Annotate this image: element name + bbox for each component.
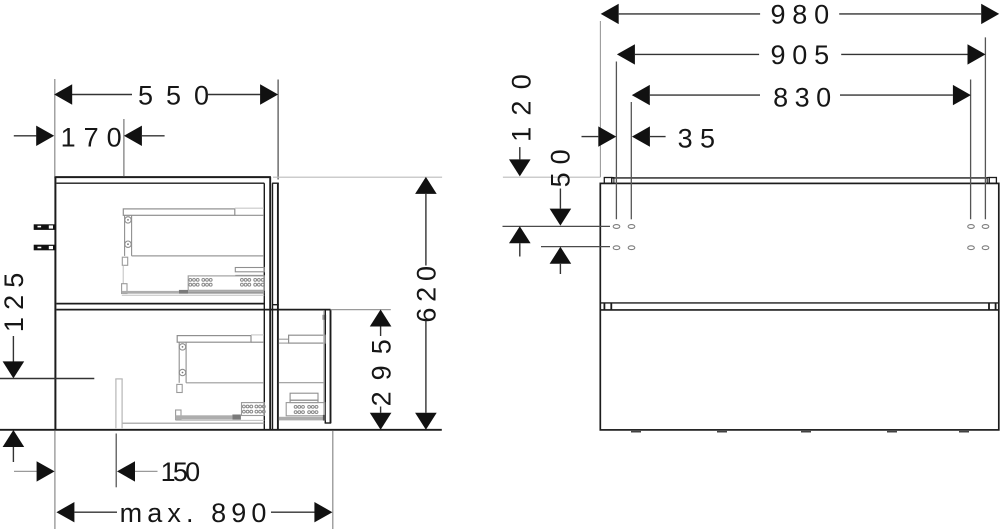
lower slide screw holes rows — [243, 405, 266, 413]
dim 125 line upper — [12, 336, 14, 362]
reference line 295 top — [331, 309, 391, 311]
extension line 550 right — [277, 80, 279, 180]
drawer seam lower line — [600, 309, 999, 311]
lower drawer screw 1 — [179, 344, 185, 350]
svg-text:150: 150 — [161, 457, 199, 487]
dim 35 left arrow with tail — [582, 136, 599, 138]
dim 620 line upper — [425, 194, 427, 266]
lower box top line — [56, 309, 330, 311]
lower drawer slide rail bar light — [176, 415, 233, 419]
dim max890 right arrow — [271, 511, 315, 513]
extension line max890 right — [332, 431, 334, 529]
dim 550 right arrow — [260, 84, 278, 104]
svg-text:550: 550 — [138, 80, 222, 110]
dim 620 top arrow — [415, 177, 437, 194]
seam tick right 1 — [988, 303, 990, 310]
upper drawer slide rail bar dark segment — [179, 290, 188, 294]
dim 170 left arrow with tail — [14, 135, 37, 137]
dim 980 right arrow — [839, 13, 981, 15]
seam tick left 2 — [610, 303, 612, 310]
reference line hole row 2 — [541, 246, 610, 248]
dim 295 bottom arrow — [370, 413, 392, 430]
upper door front panel left line — [272, 183, 274, 430]
dim 620 line lower — [425, 321, 427, 413]
front compartment rail bar — [289, 335, 326, 343]
upper drawer rail bar — [123, 209, 235, 215]
lower drawer slide rail bar dark segment — [232, 415, 241, 420]
top rail left notch — [604, 178, 611, 184]
front compartment bottom panel line — [279, 382, 324, 384]
dim 905 right arrow — [841, 53, 967, 55]
svg-text:50: 50 — [545, 141, 575, 187]
lower drawer front panel bottom cap — [325, 422, 332, 424]
extension line 150 — [115, 434, 117, 488]
mounting hole right A row 2 — [968, 246, 975, 250]
lower drawer screw 2 — [179, 369, 185, 375]
dim 120 down arrow — [509, 159, 531, 176]
cabinet left wall — [54, 177, 56, 430]
dim 125 up arrow — [3, 430, 25, 447]
upper drawer slide rail bar light — [122, 291, 179, 294]
dim 120 up arrow — [509, 226, 531, 243]
svg-text:125: 125 — [0, 265, 29, 332]
extension line cabinet left top — [54, 79, 56, 177]
dim 125 line lower tail — [12, 447, 14, 462]
svg-text:905: 905 — [770, 40, 835, 70]
siphon cutout bar top cap — [115, 378, 122, 380]
foot nub 3 — [801, 431, 811, 433]
lower drawer front bracket tick — [323, 315, 326, 320]
dim 295 top arrow — [370, 310, 392, 327]
front compartment screw holes — [294, 406, 318, 414]
dim 620 bottom arrow — [415, 413, 437, 430]
mounting hole right A row 1 — [968, 225, 975, 229]
reference line top edge left — [503, 176, 600, 178]
svg-text:120: 120 — [507, 63, 537, 142]
RIGHT VIEW DIMENSIONS GROUP — [503, 0, 1000, 274]
front compartment bottom bar dark nub — [323, 415, 326, 421]
wall mounting bracket lower — [34, 245, 56, 251]
drawer seam upper line — [600, 302, 999, 304]
extension line 905 left — [615, 62, 617, 220]
mounting hole left B row 1 — [628, 225, 635, 229]
dim 150 left arrow with gray tail — [14, 470, 37, 472]
siphon cutout bar right line — [121, 379, 123, 428]
front compartment bracket rect 1 — [290, 393, 318, 400]
mounting hole left A row 2 — [613, 246, 620, 250]
dim 120 line — [519, 147, 521, 159]
siphon cutout bar left line — [115, 379, 117, 428]
lower drawer base thin line — [176, 419, 265, 421]
lower drawer rail bar — [177, 336, 251, 343]
dim 980 left arrow — [601, 4, 619, 24]
seam tick left 1 — [603, 303, 605, 310]
foot nub 2 — [717, 431, 727, 433]
dim 550 line segments — [72, 94, 132, 96]
LEFT SIDE VIEW GROUP — [0, 177, 442, 430]
upper drawer screw 1 — [125, 217, 131, 223]
top rail top line — [612, 177, 988, 179]
reference line hole row 1 — [503, 225, 611, 227]
lower drawer bottom panel line — [186, 382, 264, 384]
extension line 830 left — [630, 102, 632, 219]
lower drawer front panel inner line — [324, 310, 326, 423]
wall mounting bracket upper — [34, 224, 56, 230]
dim 830 right arrow — [840, 94, 953, 96]
extension line 830 right — [970, 80, 972, 220]
mounting hole right B row 1 — [982, 225, 989, 229]
mounting hole right B row 2 — [982, 246, 989, 250]
upper drawer bottom panel line — [132, 255, 264, 257]
front compartment inner face line — [323, 311, 325, 421]
upper box bottom line — [56, 303, 264, 305]
upper drawer slide rail bar mid — [188, 291, 264, 294]
seam tick right 2 — [995, 303, 997, 310]
extension line 905 right — [984, 37, 986, 219]
upper drawer back rail bracket — [235, 268, 264, 272]
front view body outline — [600, 183, 999, 430]
cabinet bottom line full — [0, 429, 442, 431]
dim 125 reference line — [0, 378, 94, 380]
door panel bottom cap — [272, 304, 279, 306]
foot nub 5 — [959, 431, 969, 433]
svg-text:295: 295 — [366, 328, 396, 406]
dim 50 down arrow — [550, 209, 572, 226]
dim 50 line — [559, 189, 561, 209]
extension line left bottom — [54, 431, 56, 529]
svg-text:830: 830 — [773, 82, 838, 112]
upper drawer slide assembly box — [188, 276, 264, 290]
lower drawer under-bottom bracket — [177, 384, 182, 392]
svg-text:35: 35 — [678, 123, 723, 153]
dim 35 right arrow with tail — [632, 126, 650, 146]
reference line 620 top — [273, 176, 442, 178]
dim 170 right arrow with tail — [124, 126, 142, 146]
front compartment bottom bar — [279, 417, 325, 421]
front compartment rail short lines — [279, 338, 289, 340]
RIGHT FRONT VIEW GROUP — [600, 178, 999, 433]
lower drawer front lower bracket — [176, 410, 181, 420]
upper slide screw holes row 2 — [189, 283, 264, 286]
foot nub 1 — [631, 431, 641, 433]
mounting hole left A row 1 — [613, 225, 620, 229]
front compartment slide assembly — [286, 403, 325, 416]
svg-text:980: 980 — [770, 0, 835, 30]
dim 905 left arrow — [617, 44, 635, 64]
mounting hole left B row 2 — [628, 246, 635, 250]
dim max890 left arrow — [56, 502, 74, 522]
upper drawer front lower bracket — [122, 284, 127, 294]
front compartment bracket rect 2 — [290, 400, 318, 402]
lower drawer front profile column — [178, 342, 180, 383]
lower drawer front panel outer line — [330, 310, 332, 423]
upper drawer under-bottom bracket — [122, 257, 127, 265]
svg-text:170: 170 — [61, 123, 130, 153]
upper drawer base thin line — [122, 294, 264, 296]
upper drawer rail thin extension top — [235, 207, 264, 209]
cabinet top panel outer line — [54, 176, 271, 178]
extension line 170 — [123, 119, 125, 177]
top rail right tick — [987, 178, 989, 184]
dim 125 down arrow — [3, 361, 25, 378]
upper door front panel right line — [277, 183, 279, 430]
upper slide screw holes row 1 — [189, 279, 264, 282]
top rail left tick — [612, 178, 614, 184]
top rail right notch — [989, 178, 996, 184]
dim 150 right arrow with gray tail — [117, 461, 135, 481]
dim 50 up arrow — [550, 247, 572, 264]
lower drawer slide assembly box — [242, 403, 265, 416]
door panel top cap — [272, 182, 279, 184]
upper box right outer edge — [269, 177, 271, 430]
dim 830 left arrow — [632, 85, 650, 105]
foot nub 4 — [887, 431, 897, 433]
cabinet top panel inner line — [56, 182, 264, 184]
svg-text:620: 620 — [412, 260, 442, 322]
svg-text:max. 890: max. 890 — [120, 498, 272, 528]
extension line 980 left — [599, 21, 601, 177]
upper drawer screw 2 — [125, 241, 131, 247]
inner vertical line back of drawers — [263, 183, 265, 430]
LEFT VIEW DIMENSIONS GROUP — [0, 79, 442, 529]
cabinet floor line — [122, 422, 264, 424]
dim 550 left arrow — [54, 84, 72, 104]
upper drawer rail bottom extension — [235, 214, 264, 216]
upper drawer front profile column — [124, 215, 126, 256]
